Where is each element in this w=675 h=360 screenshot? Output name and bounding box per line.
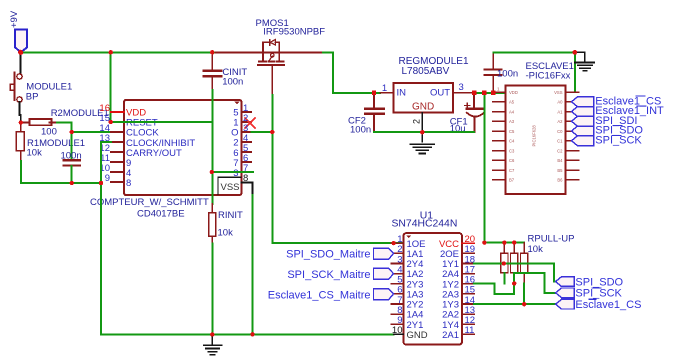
svg-text:C4: C4 [509,139,515,144]
pin names CD4017 right [220,108,239,194]
svg-text:CD4017BE: CD4017BE [137,208,185,219]
wire 1Y3 pin14 to Esclave1_CS flag [474,303,556,305]
junction CINIT branch [210,50,214,54]
svg-text:8: 8 [126,178,131,189]
svg-text:11: 11 [465,325,475,336]
wire regulator OUT rail [473,92,506,94]
svg-text:A5: A5 [509,100,515,105]
pin stubs U1 left [391,243,403,334]
svg-text:A1: A1 [557,109,563,114]
net flag SPI_SCK_Maitre [374,268,394,279]
svg-text:IRF9530NPBF: IRF9530NPBF [263,27,325,38]
VSS box CD4017 [218,177,241,194]
svg-text:COMPTEUR_W/_SCHMITT: COMPTEUR_W/_SCHMITT [90,197,209,208]
svg-text:100n: 100n [61,151,82,162]
junction CF2 node [372,91,376,95]
no-connect X pin 2 [245,118,255,128]
pin numbers U1 right [465,234,476,336]
wire RPULLc bottom [523,283,525,304]
wire gnd pin2 below [421,132,423,141]
wire VDD/RESET drop from +9V rail [110,52,112,122]
svg-text:A2: A2 [557,119,563,124]
wire regulator ground line [374,131,474,133]
pin names ESCLAVE left [509,90,518,183]
svg-text:B6: B6 [557,178,563,183]
svg-text:IN: IN [397,87,407,98]
wire black +9V to button [20,52,22,74]
junction VSS ground rail [250,332,254,336]
junction CF1 node [472,91,476,95]
pin names CD4017 left [126,108,195,190]
resistor R2MODULE1 [21,119,57,125]
junction RINIT ground rail [210,332,214,336]
pin stubs CD4017 left [111,112,124,182]
overline marks bottom net labels [589,288,601,299]
pin numbers U1 left [392,234,403,336]
pin names U1 left [407,239,428,341]
pin names ESCLAVE right [554,90,563,183]
svg-text:PIC16F628: PIC16F628 [532,125,537,147]
wire Q3 pin7 stub to CINIT line [212,171,253,173]
pin numbers CD4017 left [99,103,110,184]
svg-text:+9V: +9V [9,10,20,28]
resistor RPULL-UP b [511,243,518,273]
svg-text:C2: C2 [557,148,563,153]
svg-text:A4: A4 [509,109,515,114]
net flag Esclave1_INT at PIC [572,107,594,117]
net flag Esclave1_CS at PIC [572,97,594,107]
svg-text:Esclave1_CS: Esclave1_CS [575,299,641,311]
overline marks on net labels [612,96,646,135]
net flag SPI_SDO_Maitre [374,248,394,259]
resistor R1MODULE1 [16,123,24,162]
resistor RPULL-UP c [521,243,528,284]
IC ESCLAVE1 PIC16Fxx body [506,86,566,195]
svg-text:B7: B7 [509,178,515,183]
svg-text:SPI_SCK: SPI_SCK [575,288,622,300]
wire VCC drop to U1 pin20 [483,93,485,243]
wire RESET pin15 across IC to CINIT line [111,121,213,123]
net flag SPI_SDI at PIC [572,116,594,126]
transistor PMOS1 [216,40,323,96]
svg-text:GND: GND [412,102,434,113]
net flag SPI_SCK bottom [556,288,575,298]
svg-text:100n: 100n [222,76,243,87]
svg-text:-PIC16Fxx: -PIC16Fxx [526,70,571,81]
svg-text:10k: 10k [218,227,234,238]
net flag Esclave1_CS bottom [556,299,575,309]
junction ground rail pin13 line [99,181,103,185]
wire VSS pin8 black jog [241,183,252,196]
junction rpull b top [512,240,516,244]
pin 1 marker U1 [406,235,411,238]
wire VSS drop to ground rail [252,195,254,334]
junction rpull a SPI_SDO net [502,261,506,265]
junction regulator ground [420,130,424,134]
svg-text:C7: C7 [509,168,515,173]
junction Q3 CINIT line [210,170,214,174]
wire black button to node [20,102,21,123]
pin stubs CD4017 right [241,112,251,172]
capacitor CF1 polarized [465,93,484,132]
svg-text:SPI_SCK_Maitre: SPI_SCK_Maitre [287,269,370,281]
wire RPULL-UP supply rail [484,242,524,244]
IC COMPTEUR_W/_SCHMITT CD4017BE body [124,100,241,195]
ground symbol ESCLAVE [575,63,594,71]
svg-text:C3: C3 [509,148,515,153]
svg-text:10k: 10k [27,147,43,158]
wire CLOCK/INHIBIT pin13 down to ground rail [101,142,394,334]
capacitor CF2 [365,93,384,132]
junction rpull c Esclave1_CS net [522,302,526,306]
svg-text:SPI_SDO_Maitre: SPI_SDO_Maitre [286,248,370,260]
resistor RPULL-UP a [501,243,508,273]
svg-text:SN74HC244N: SN74HC244N [392,218,458,229]
junction U1 pin1 [391,241,395,245]
wire Q0 pin3 to gate line [251,131,272,133]
junction VCC rpull rail [482,240,486,244]
junction rpull b lead [512,281,516,285]
svg-text:C5: C5 [509,129,515,134]
svg-text:SPI_SDO: SPI_SDO [575,276,623,288]
svg-text:100: 100 [41,127,57,138]
svg-text:VDD: VDD [509,90,518,95]
svg-text:10k: 10k [528,244,544,255]
wire 1Y1 pin18 to SPI_SDO flag [474,264,556,282]
wire ESCLAVE VSS rail [493,52,575,92]
svg-text:3: 3 [233,168,238,179]
svg-text:B5: B5 [557,168,563,173]
pin names U1 right [439,239,459,341]
junction R2 cap node [70,130,74,134]
svg-text:1: 1 [382,83,387,94]
capacitor 100n ESCLAVE decoupling [485,52,502,93]
junction BP R1 R2 node [19,120,23,124]
svg-text:C6: C6 [509,158,515,163]
junction decoupling cap node [491,91,495,95]
wire PMOS drain to regulator IN [323,52,380,93]
junction VSS rail ground [572,50,577,55]
pin 1 marker CD4017 [235,102,240,105]
svg-text:C1: C1 [557,139,563,144]
wire +9V rail top [21,51,216,53]
capacitor CINIT [203,52,221,90]
power flag +9V [9,10,27,52]
svg-text:BP: BP [26,91,39,102]
svg-text:2: 2 [412,119,422,124]
svg-text:9: 9 [105,173,110,184]
svg-text:SPI_SCK: SPI_SCK [595,134,642,146]
svg-text:Esclave1_CS_Maitre: Esclave1_CS_Maitre [268,290,371,302]
junction rpull a top [502,240,506,244]
svg-text:B4: B4 [557,158,563,163]
resistor RINIT [209,204,216,244]
pin stubs ESCLAVE right [566,92,579,180]
wire CINIT down through IC to RINIT [211,90,213,204]
wire R1 bottom to ground rail [21,161,101,183]
pin numbers CD4017 right [243,103,248,184]
svg-text:L7805ABV: L7805ABV [402,66,450,77]
svg-text:A0: A0 [557,100,563,105]
junction cap ground rail [70,181,74,185]
wire 1Y2 pin16 jog to RPULLb [474,284,514,294]
svg-text:GND: GND [407,330,428,341]
ground symbol regulator [410,144,434,153]
svg-text:CARRY/OUT: CARRY/OUT [126,148,182,159]
ground symbol bottom [204,334,222,355]
svg-text:VSS: VSS [554,90,563,95]
svg-text:100n: 100n [350,125,371,136]
wire RPULLa bottom stub [503,273,505,284]
svg-text:2A1: 2A1 [442,330,459,341]
net flag SPI_SCK at PIC [572,136,594,146]
regulator REGMODULE1 L7805ABV [380,83,473,132]
junction VCC drop node [482,91,486,95]
svg-text:3: 3 [459,82,464,93]
junction +9V rail [18,50,23,55]
svg-text:VSS: VSS [220,182,239,193]
svg-text:RPULL-UP: RPULL-UP [528,233,575,244]
junction VDD branch [109,50,113,54]
capacitor 100n (BP debounce) [64,132,81,183]
svg-text:A3: A3 [509,119,515,124]
wire R2 to CLOCK pin14 [57,123,112,133]
wire RINIT bottom to ground rail [211,244,213,335]
svg-text:C0: C0 [557,129,563,134]
net flag Esclave1_CS_Maitre [374,289,394,300]
junction Q0 gate line [270,130,274,134]
svg-text:10: 10 [392,325,403,336]
net flag SPI_SDO bottom [556,277,575,287]
push button MODULE1 BP [10,73,22,103]
pin stubs ESCLAVE left [493,92,506,180]
wire black to ground ESCLAVE [575,52,585,62]
net flag SPI_SDO at PIC [572,126,594,136]
svg-text:100n: 100n [497,69,518,80]
svg-text:OUT: OUT [430,87,450,98]
IC U1 SN74HC244N body [403,233,462,345]
wire RPULLb bottom [513,273,515,294]
svg-text:RINIT: RINIT [218,210,243,221]
wire RPULLb top to SPI_SCK flag [514,273,555,293]
pin stubs U1 right [462,243,474,334]
wire PMOS gate to U1 pin1 [272,95,403,243]
junction RESET pin15 [109,120,113,124]
